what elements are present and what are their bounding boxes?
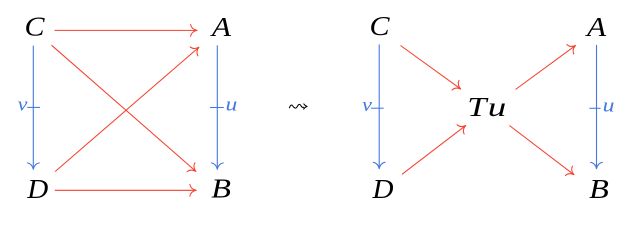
arrow C->D (blue vertical left): [27, 46, 39, 170]
svg-text:C: C: [25, 12, 46, 42]
svg-text:C: C: [370, 11, 391, 41]
svg-text:B: B: [589, 174, 609, 204]
svg-text:u: u: [603, 96, 615, 116]
svg-text:u: u: [488, 92, 507, 122]
tick on u arrow (left): [210, 107, 224, 109]
svg-text:D: D: [26, 174, 49, 204]
svg-text:u: u: [226, 96, 238, 116]
squiggly arrow (rightsquigarrow): [289, 104, 307, 109]
arrow D->A (red diagonal up): [55, 43, 203, 172]
arrow C->A (red, horizontal top): [55, 24, 198, 36]
arrow C->Tu (red): [401, 46, 465, 94]
svg-text:v: v: [18, 95, 29, 115]
svg-text:T: T: [467, 92, 489, 122]
tick on v arrow (left): [27, 106, 40, 108]
arrow Tu->A (red): [516, 41, 579, 90]
arrow C->B (red diagonal down): [52, 45, 200, 176]
arrow C->D (blue vertical, right diagram): [373, 45, 385, 169]
svg-text:D: D: [371, 174, 394, 204]
svg-text:A: A: [210, 12, 232, 42]
arrow D->B (red, horizontal bottom): [55, 184, 197, 196]
tick on u arrow (right): [589, 107, 600, 109]
arrow D->Tu (red): [402, 121, 469, 174]
svg-text:B: B: [211, 174, 231, 204]
svg-text:v: v: [362, 96, 373, 116]
arrow Tu->B (red): [509, 126, 577, 180]
arrow A->B (blue vertical, right diagram): [591, 45, 603, 169]
arrow A->B (blue vertical right): [211, 45, 223, 169]
tick on v arrow (right): [371, 107, 384, 109]
svg-text:A: A: [585, 12, 607, 42]
